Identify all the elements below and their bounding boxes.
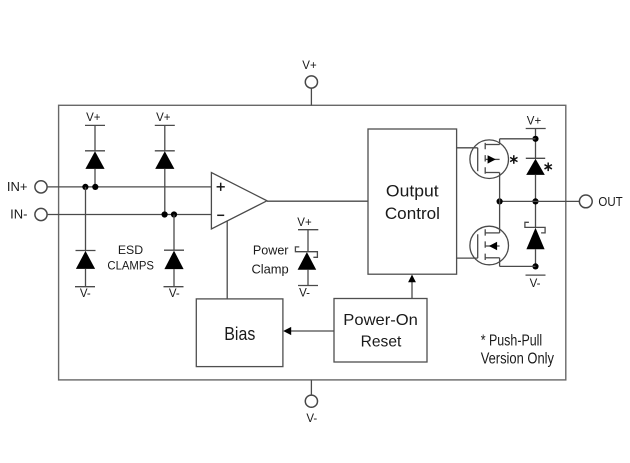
svg-text:IN-: IN- [10, 206, 27, 221]
svg-text:Output: Output [386, 183, 439, 201]
svg-text:ESD: ESD [118, 243, 143, 257]
svg-text:CLAMPS: CLAMPS [107, 259, 154, 273]
svg-text:Clamp: Clamp [251, 262, 288, 277]
svg-text:Control: Control [385, 205, 440, 223]
svg-text:V+: V+ [527, 115, 542, 127]
svg-text:V-: V- [80, 288, 91, 300]
svg-text:Reset: Reset [361, 334, 402, 351]
svg-text:Version Only: Version Only [481, 350, 554, 367]
svg-text:V-: V- [299, 288, 310, 300]
svg-text:Power: Power [253, 243, 289, 258]
svg-text:Power-On: Power-On [343, 312, 418, 329]
svg-text:V-: V- [530, 278, 541, 290]
svg-text:V+: V+ [156, 112, 171, 124]
svg-text:V-: V- [306, 413, 317, 425]
svg-text:V+: V+ [297, 217, 312, 229]
svg-text:V-: V- [169, 288, 180, 300]
svg-text:IN+: IN+ [7, 179, 28, 194]
svg-text:Bias: Bias [224, 323, 255, 344]
svg-text:* Push-Pull: * Push-Pull [481, 333, 543, 350]
svg-text:V+: V+ [302, 60, 317, 72]
svg-text:OUT: OUT [598, 194, 622, 209]
svg-text:V+: V+ [86, 112, 101, 124]
